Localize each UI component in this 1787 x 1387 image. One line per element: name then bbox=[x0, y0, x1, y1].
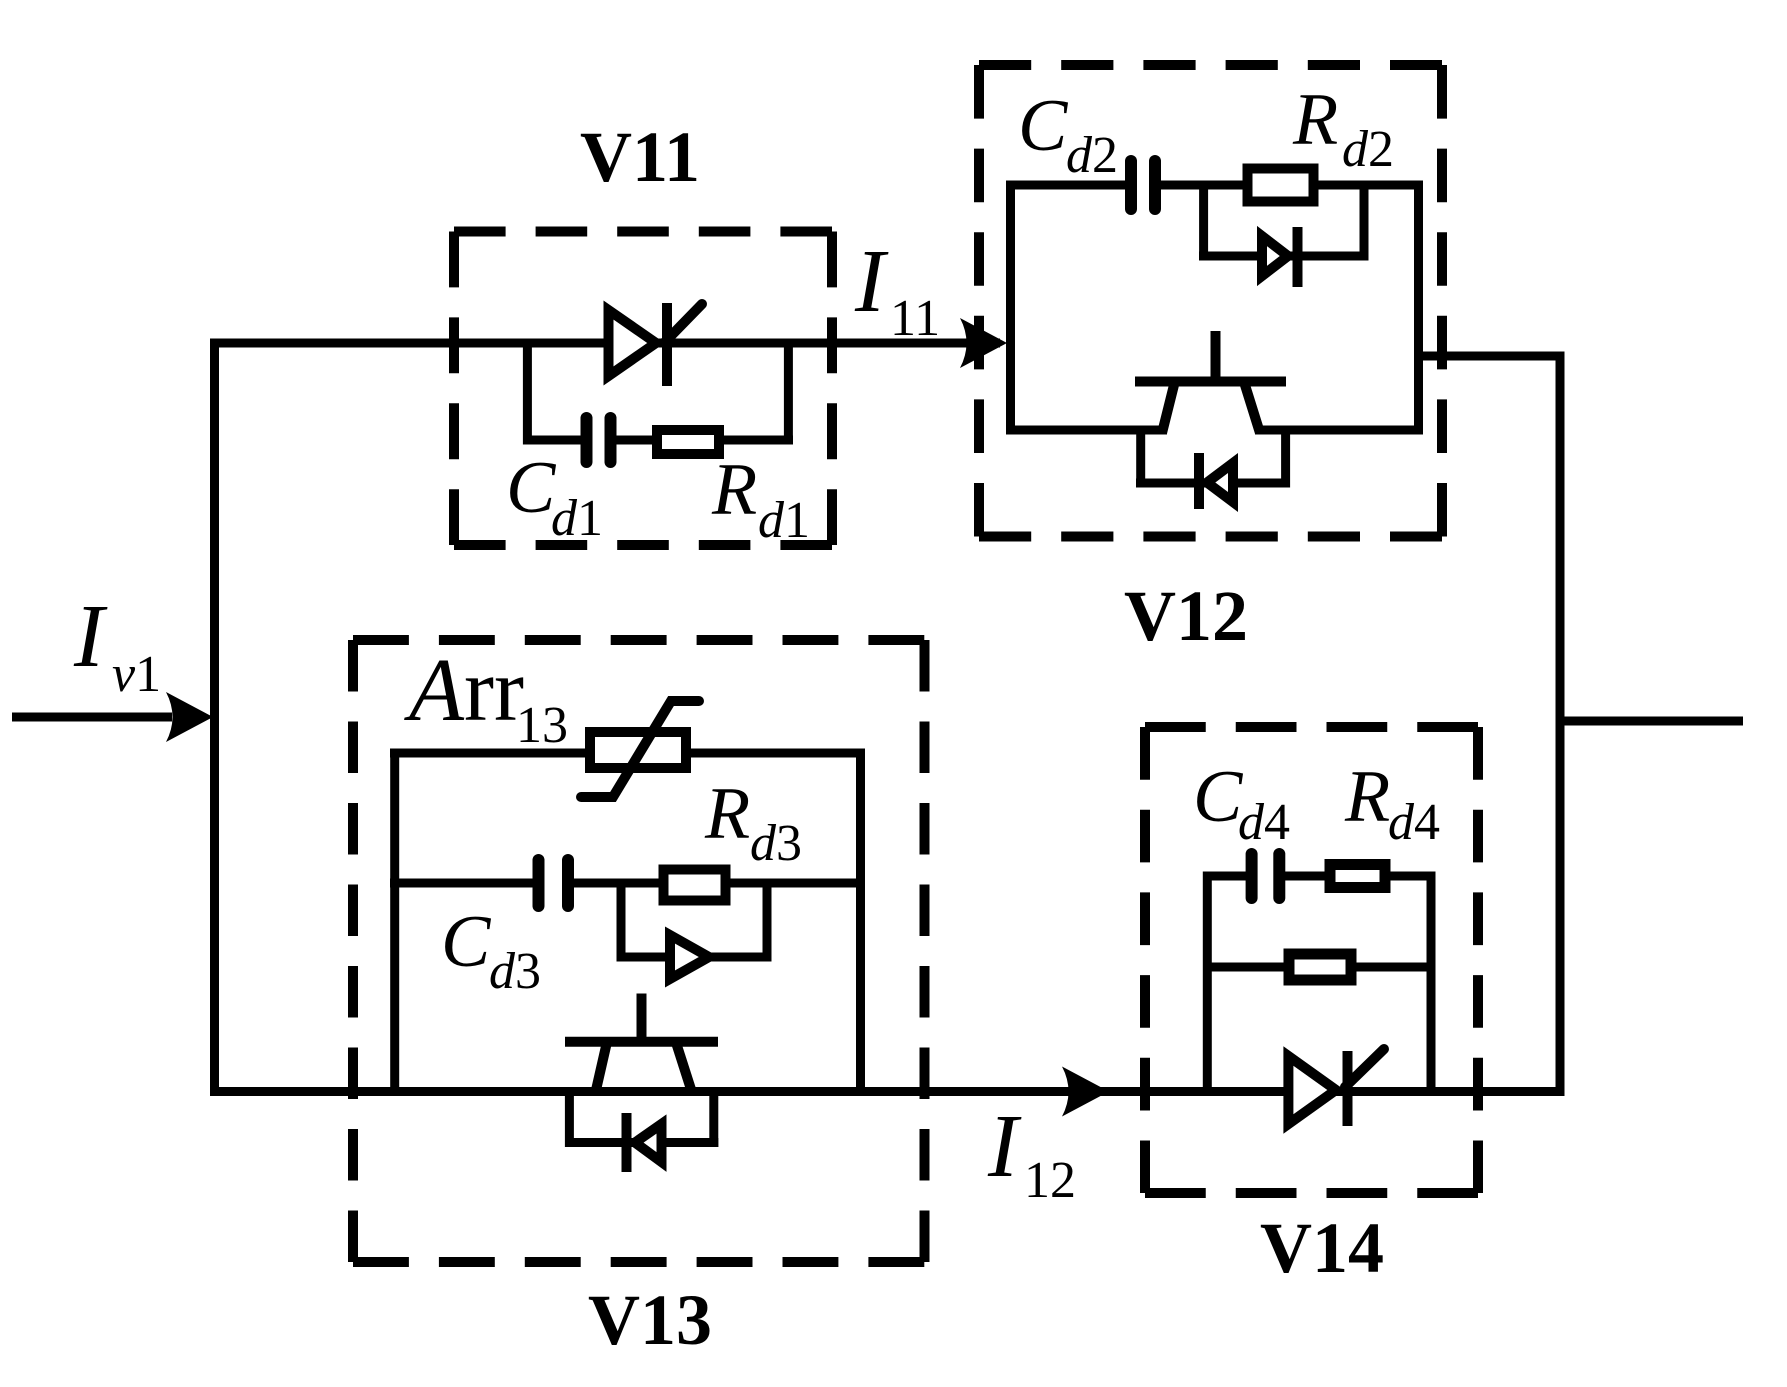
thyristor V14 device bbox=[1288, 1049, 1384, 1126]
svg-text:12: 12 bbox=[1024, 1152, 1076, 1209]
wire: V13 snubber branch segments bbox=[390, 879, 533, 888]
wire: top wire (left bus to V12) bbox=[210, 339, 1000, 348]
box V11 (dashed) bbox=[454, 232, 832, 546]
svg-text:d4: d4 bbox=[1388, 794, 1440, 851]
svg-text:13: 13 bbox=[516, 697, 568, 754]
resistor R2 (Rd2) bbox=[1248, 169, 1314, 202]
wire: V12 output tap bbox=[1419, 352, 1565, 361]
svg-text:C: C bbox=[1018, 85, 1069, 167]
node: I12 arrowhead bbox=[1062, 1067, 1109, 1117]
svg-text:I: I bbox=[987, 1097, 1022, 1196]
wire: V13 arrester branch bbox=[390, 749, 865, 758]
capacitor C3 (Cd3) bbox=[533, 860, 545, 906]
capacitor C4 (Cd4) bbox=[1246, 854, 1258, 898]
svg-text:d2: d2 bbox=[1066, 127, 1118, 184]
wire: right bus vertical bbox=[1556, 352, 1565, 1097]
svg-text:R: R bbox=[1344, 756, 1390, 838]
svg-text:Arr: Arr bbox=[404, 641, 524, 740]
svg-text:I: I bbox=[854, 232, 889, 331]
diode D3 (parallel to Rd3) bbox=[670, 935, 709, 979]
wire: V12 loop right vertical bbox=[1414, 181, 1423, 435]
box V13 (dashed) bbox=[353, 640, 925, 1262]
wire: V14 top branch segments bbox=[1203, 872, 1246, 881]
node: Iv1 arrowhead bbox=[166, 692, 213, 742]
node: I11 arrowhead bbox=[960, 318, 1007, 368]
resistor R3 (Rd3) bbox=[664, 870, 726, 901]
svg-text:11: 11 bbox=[890, 290, 940, 347]
wire: Rd3 bypass diode loop bbox=[617, 883, 626, 962]
arrester Arr13 (varistor) bbox=[581, 701, 699, 797]
diode D2 (parallel to Rd2) bbox=[1262, 227, 1298, 287]
wire: V11 snubber left drop bbox=[523, 343, 532, 445]
capacitor C1 (Cd1) bbox=[581, 418, 593, 462]
svg-text:v1: v1 bbox=[112, 646, 161, 703]
svg-text:V11: V11 bbox=[580, 117, 700, 197]
svg-text:d2: d2 bbox=[1342, 121, 1394, 178]
svg-text:C: C bbox=[1193, 756, 1244, 838]
wire: V11 snubber right riser bbox=[784, 343, 793, 445]
svg-text:C: C bbox=[506, 447, 557, 529]
wire: Rd2 bypass diode loop bbox=[1199, 185, 1208, 261]
wire: bottom wire (left bus to right bus) bbox=[210, 1087, 1560, 1096]
svg-text:C: C bbox=[441, 901, 492, 983]
wire: V13 loop right vertical bbox=[856, 749, 865, 1097]
svg-text:d1: d1 bbox=[758, 492, 810, 549]
wire: V12 antiparallel diode loop bbox=[1136, 430, 1145, 488]
box V14 (dashed) bbox=[1145, 727, 1478, 1193]
svg-text:I: I bbox=[73, 587, 108, 686]
capacitor C2 (Cd2) bbox=[1125, 161, 1137, 209]
svg-text:d3: d3 bbox=[489, 943, 541, 1000]
wire: V12 loop left vertical bbox=[1006, 181, 1015, 435]
wire: left bus vertical bbox=[210, 339, 219, 1097]
diode D2a (antiparallel, V12) bbox=[1199, 453, 1233, 509]
wire: V14 middle branch bbox=[1203, 963, 1436, 972]
IGBT T3 (V13) bbox=[565, 994, 718, 1095]
wire: V13 loop left vertical bbox=[390, 749, 399, 1097]
svg-text:d3: d3 bbox=[750, 815, 802, 872]
svg-text:R: R bbox=[711, 449, 757, 531]
resistor R5 (V14 middle) bbox=[1289, 954, 1351, 980]
svg-text:V14: V14 bbox=[1260, 1208, 1384, 1288]
svg-text:d4: d4 bbox=[1238, 794, 1290, 851]
svg-text:R: R bbox=[704, 773, 750, 855]
box V12 (dashed) bbox=[979, 65, 1442, 537]
thyristor V11 device bbox=[609, 303, 703, 386]
wire: V12 bottom branch segments bbox=[1006, 426, 1167, 435]
wire: V14 loop right vertical bbox=[1427, 872, 1436, 1097]
svg-text:V13: V13 bbox=[588, 1280, 712, 1360]
wire: V14 loop left vertical bbox=[1203, 872, 1212, 1097]
IGBT T2 (V12) bbox=[1135, 331, 1286, 433]
wire: output line right bbox=[1560, 717, 1743, 726]
svg-text:V12: V12 bbox=[1124, 576, 1248, 656]
resistor R4 (Rd4) bbox=[1330, 865, 1385, 888]
svg-text:d1: d1 bbox=[551, 490, 603, 547]
wire: V11 snubber bottom segments bbox=[523, 436, 581, 445]
wire: Iv1 input line bbox=[12, 713, 172, 722]
wire: V12 top branch segments bbox=[1006, 181, 1126, 190]
resistor R1 (Rd1) bbox=[657, 430, 719, 454]
diode D3a (antiparallel, V13) bbox=[627, 1113, 662, 1172]
svg-text:R: R bbox=[1292, 79, 1338, 161]
wire: V13 antiparallel diode loop bbox=[565, 1092, 574, 1148]
